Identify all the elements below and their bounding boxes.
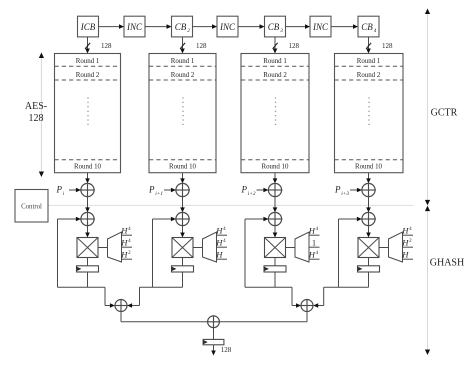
svg-text:H: H bbox=[120, 225, 128, 235]
svg-text:Round 1: Round 1 bbox=[76, 58, 100, 65]
svg-text:128: 128 bbox=[289, 42, 300, 50]
svg-text:Control: Control bbox=[21, 203, 42, 210]
svg-text:Round 2: Round 2 bbox=[76, 72, 100, 79]
svg-text:i+3: i+3 bbox=[341, 191, 349, 197]
svg-text:INC: INC bbox=[126, 22, 143, 32]
svg-text:CB: CB bbox=[175, 22, 187, 32]
svg-text:H: H bbox=[308, 225, 316, 235]
svg-text:128: 128 bbox=[101, 42, 112, 50]
svg-text:INC: INC bbox=[312, 22, 329, 32]
svg-text:Round 1: Round 1 bbox=[171, 58, 195, 65]
svg-text:Round 10: Round 10 bbox=[74, 164, 102, 171]
svg-text:H: H bbox=[215, 225, 223, 235]
svg-text:INC: INC bbox=[219, 22, 236, 32]
svg-text:Round 10: Round 10 bbox=[262, 164, 290, 171]
svg-text:128: 128 bbox=[196, 42, 207, 50]
svg-text:CB: CB bbox=[361, 22, 373, 32]
svg-text:Round 2: Round 2 bbox=[171, 72, 195, 79]
svg-text:i+2: i+2 bbox=[248, 191, 256, 197]
svg-text:4: 4 bbox=[374, 27, 377, 34]
svg-text:1: 1 bbox=[312, 238, 316, 247]
svg-text:H: H bbox=[401, 225, 409, 235]
svg-text:H: H bbox=[215, 237, 223, 247]
svg-text:128: 128 bbox=[221, 346, 232, 354]
svg-text:H: H bbox=[401, 237, 409, 247]
svg-text:i+1: i+1 bbox=[155, 191, 163, 197]
svg-text:ICB: ICB bbox=[80, 22, 96, 32]
svg-text:CB: CB bbox=[268, 22, 280, 32]
svg-text:3: 3 bbox=[280, 28, 283, 34]
svg-text:P: P bbox=[148, 184, 155, 194]
svg-text:P: P bbox=[56, 184, 63, 194]
svg-text:H: H bbox=[401, 249, 409, 259]
svg-text:P: P bbox=[334, 184, 341, 194]
svg-text:H: H bbox=[308, 249, 316, 259]
svg-text:AES-: AES- bbox=[25, 101, 47, 112]
svg-text:128: 128 bbox=[382, 42, 393, 50]
svg-text:H: H bbox=[120, 249, 128, 259]
svg-text:Round 2: Round 2 bbox=[263, 72, 287, 79]
svg-text:Round 10: Round 10 bbox=[355, 164, 383, 171]
svg-text:Round 2: Round 2 bbox=[357, 72, 381, 79]
svg-text:P: P bbox=[241, 184, 248, 194]
svg-text:Round 1: Round 1 bbox=[357, 58, 381, 65]
svg-text:Round 10: Round 10 bbox=[169, 164, 197, 171]
svg-text:H: H bbox=[120, 237, 128, 247]
svg-text:H: H bbox=[215, 249, 223, 259]
svg-text:Round 1: Round 1 bbox=[263, 58, 287, 65]
svg-text:2: 2 bbox=[187, 28, 190, 34]
svg-text:128: 128 bbox=[29, 113, 44, 124]
svg-text:GHASH: GHASH bbox=[430, 258, 464, 269]
svg-text:GCTR: GCTR bbox=[431, 108, 458, 119]
